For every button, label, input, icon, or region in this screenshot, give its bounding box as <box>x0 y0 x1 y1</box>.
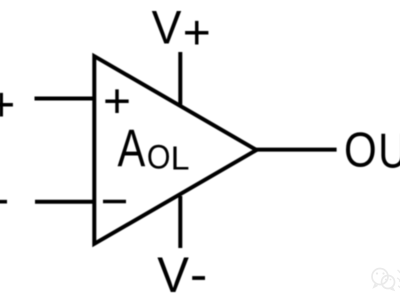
svg-text:O: O <box>147 138 171 176</box>
svg-text:U: U <box>378 122 400 178</box>
svg-text:L: L <box>171 141 190 177</box>
svg-text:V: V <box>157 248 189 300</box>
svg-text:V: V <box>152 2 182 54</box>
svg-text:+: + <box>0 79 15 132</box>
svg-text:+: + <box>103 75 131 128</box>
svg-text:O: O <box>344 121 377 177</box>
svg-text:+: + <box>183 7 211 60</box>
